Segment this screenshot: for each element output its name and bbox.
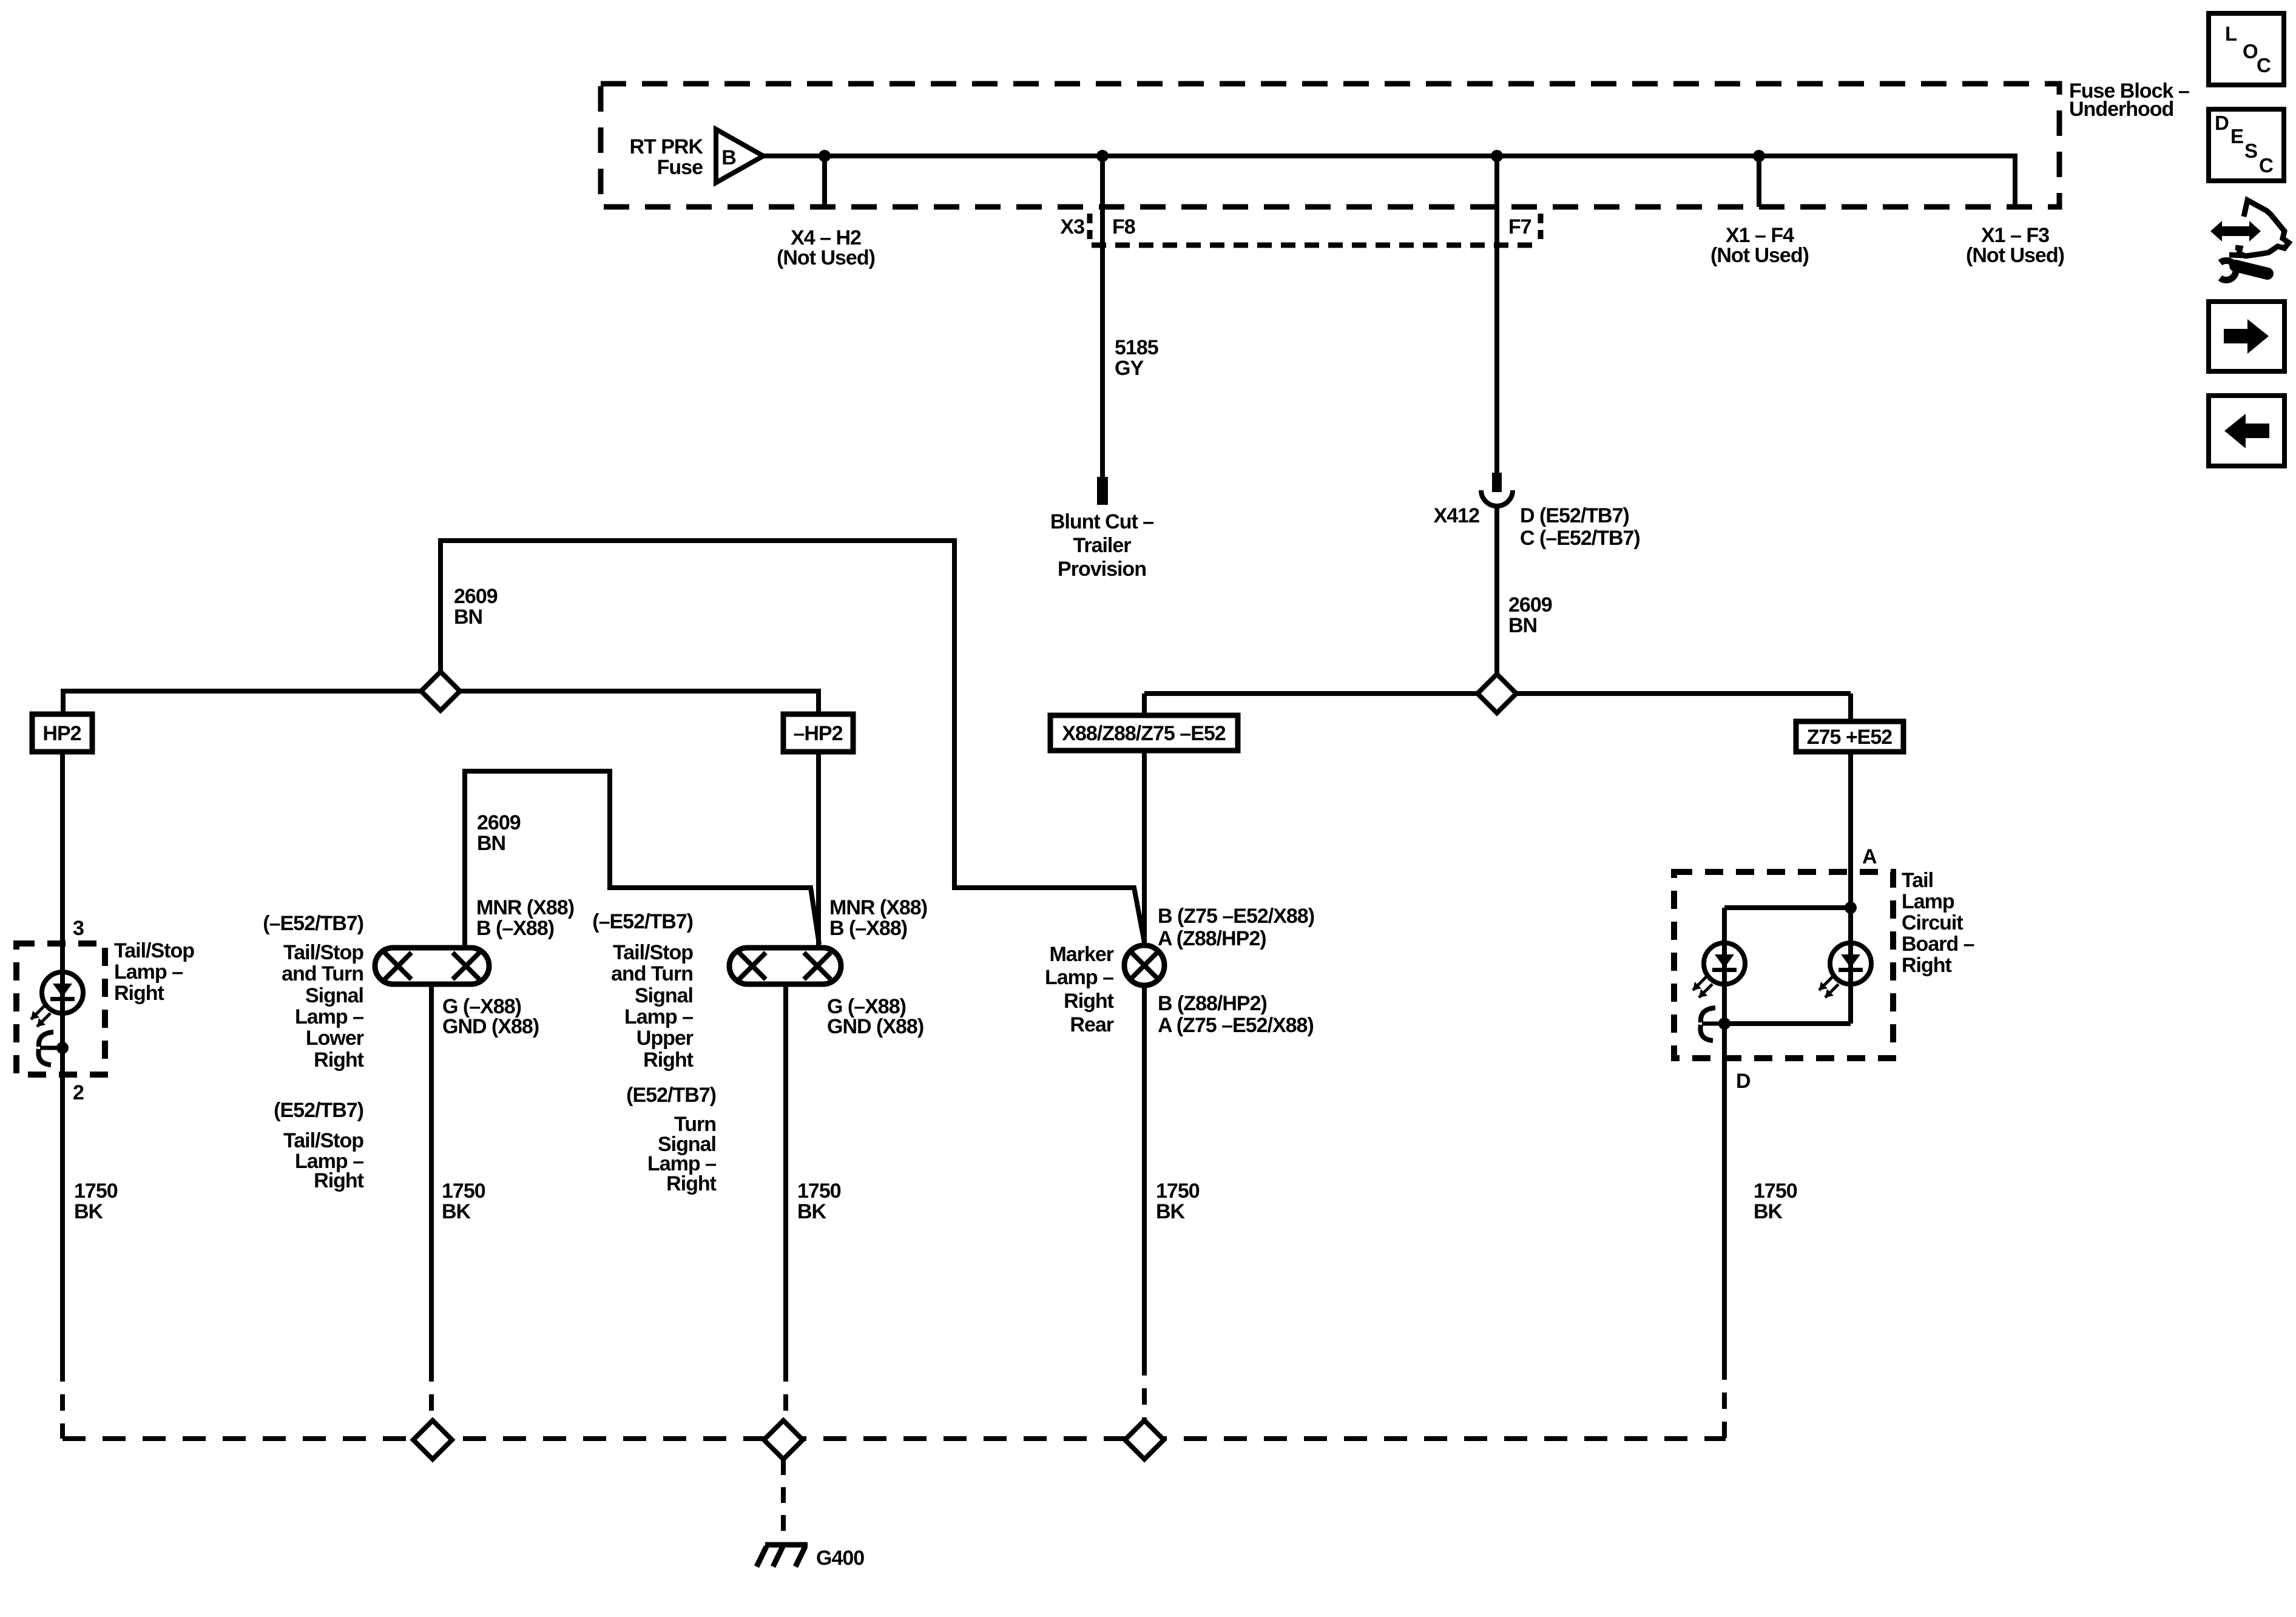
svg-text:GND (X88): GND (X88): [442, 1015, 539, 1038]
splice diamond right: [1477, 674, 1516, 713]
svg-text:RT PRK: RT PRK: [629, 135, 703, 158]
wire HP2 dashed to ground bus: [60, 1365, 65, 1439]
svg-text:Provision: Provision: [1058, 558, 1146, 581]
svg-text:1750: 1750: [797, 1180, 841, 1203]
wire X88 box down to marker lamp: [1142, 751, 1147, 945]
icon box DESC: [2209, 109, 2284, 181]
wire -HP2 down to upper oval: [816, 752, 821, 948]
svg-text:X412: X412: [1434, 504, 1479, 527]
svg-text:Tail/Stop: Tail/Stop: [613, 941, 693, 964]
svg-text:(Not Used): (Not Used): [1710, 244, 1809, 267]
junction dot board top: [1845, 902, 1857, 914]
svg-text:Rear: Rear: [1070, 1013, 1113, 1036]
wire marker lamp to ground: [1142, 985, 1147, 1359]
icon box LOC: [2209, 13, 2284, 85]
svg-text:L: L: [2225, 22, 2237, 45]
svg-text:2609: 2609: [477, 811, 521, 834]
connector box X88/Z88/Z75 -E52: [1050, 715, 1238, 751]
wire left parallel branch HP2 to -HP2: [63, 691, 819, 715]
svg-text:Right: Right: [643, 1048, 694, 1072]
icon car with double arrow and wrench: [2210, 221, 2261, 241]
wire GND upper oval dashed: [783, 1365, 788, 1439]
junction dot F7: [1491, 150, 1503, 162]
svg-text:and Turn: and Turn: [282, 962, 363, 985]
svg-text:S: S: [2244, 140, 2257, 162]
wire GND lower oval dashed: [429, 1365, 434, 1439]
svg-text:BK: BK: [442, 1200, 471, 1223]
wire drop into X88/Z88/Z75 box: [1142, 694, 1147, 715]
wire 2609 BN below X412: [1494, 507, 1499, 694]
wire riser from left diamond to marker lamp node: [441, 541, 1144, 942]
svg-text:(Not Used): (Not Used): [777, 246, 875, 269]
svg-text:Signal: Signal: [635, 984, 693, 1007]
svg-text:Lamp –: Lamp –: [114, 960, 183, 984]
svg-text:Marker: Marker: [1049, 943, 1113, 966]
ground bus dashed: [62, 1436, 1726, 1441]
connector box -HP2: [783, 714, 853, 752]
svg-text:B (–X88): B (–X88): [476, 917, 554, 940]
svg-text:1750: 1750: [1754, 1180, 1797, 1203]
svg-text:A (Z88/HP2): A (Z88/HP2): [1158, 927, 1266, 950]
wire board right branch: [1848, 908, 1853, 1024]
svg-text:Blunt Cut –: Blunt Cut –: [1050, 510, 1153, 533]
junction dot left lamp: [56, 1042, 69, 1054]
wire Z75 box down to circuit board: [1848, 752, 1853, 908]
lamp oval tail/stop and turn - upper right: [729, 948, 841, 984]
wire 2609 BN from lower oval to upper oval (Z-path): [465, 771, 819, 948]
svg-text:BN: BN: [1508, 614, 1537, 637]
wire drop X1-F3: [2013, 154, 2017, 207]
svg-text:GY: GY: [1115, 357, 1144, 380]
svg-text:(E52/TB7): (E52/TB7): [626, 1084, 716, 1107]
wire HP2 down to tail/stop lamp: [60, 752, 65, 1365]
connector box HP2: [32, 714, 92, 752]
bus diamond 1: [413, 1420, 452, 1459]
junction dot X1-F4: [1753, 150, 1765, 162]
svg-text:Lamp –: Lamp –: [1045, 966, 1113, 989]
svg-text:Right: Right: [314, 1169, 364, 1192]
svg-text:Right: Right: [1902, 954, 1952, 977]
svg-text:Tail: Tail: [1902, 869, 1933, 892]
svg-text:O: O: [2243, 40, 2258, 62]
svg-text:BK: BK: [797, 1200, 827, 1223]
wire board left branch: [1722, 908, 1727, 1024]
svg-text:A (Z75 –E52/X88): A (Z75 –E52/X88): [1158, 1014, 1314, 1037]
svg-text:D: D: [2215, 112, 2229, 134]
svg-text:BK: BK: [1754, 1200, 1783, 1223]
wire drop X1-F4: [1757, 156, 1761, 207]
svg-text:F8: F8: [1112, 215, 1135, 238]
svg-text:B: B: [721, 146, 736, 169]
wire splice bus right (to X88 box and Z75 box): [1144, 691, 1851, 696]
svg-text:BN: BN: [477, 832, 505, 855]
svg-text:B (Z75 –E52/X88): B (Z75 –E52/X88): [1158, 905, 1314, 928]
svg-text:Tail/Stop: Tail/Stop: [283, 1129, 363, 1152]
svg-text:–HP2: –HP2: [793, 722, 842, 745]
junction dot X4-H2: [819, 150, 831, 162]
blunt cut terminal: [1097, 477, 1108, 505]
fuse block - underhood dashed boundary: [601, 84, 2059, 207]
LED board right: [1830, 943, 1871, 984]
wire GND lower oval: [429, 984, 434, 1365]
fuse row sub-box dashed: [1092, 243, 1532, 248]
wire circuit board top rail: [1724, 905, 1851, 910]
svg-text:Circuit: Circuit: [1902, 911, 1963, 934]
svg-text:Signal: Signal: [305, 984, 363, 1007]
junction dot board bottom: [1718, 1018, 1730, 1030]
svg-text:B (Z88/HP2): B (Z88/HP2): [1158, 992, 1267, 1015]
svg-text:(–E52/TB7): (–E52/TB7): [263, 912, 363, 935]
LED tail/stop lamp right: [42, 972, 83, 1013]
wire main feed bus from fuse: [763, 154, 2015, 158]
svg-text:2609: 2609: [1508, 593, 1552, 616]
hook splice left lamp: [39, 1032, 53, 1047]
svg-text:1750: 1750: [74, 1180, 118, 1203]
svg-text:BK: BK: [74, 1200, 104, 1223]
wire board down to ground: [1722, 1024, 1727, 1363]
svg-text:(E52/TB7): (E52/TB7): [274, 1099, 363, 1122]
marker lamp symbol: [1124, 945, 1164, 985]
svg-text:Fuse: Fuse: [657, 156, 703, 179]
svg-text:Right: Right: [1064, 990, 1114, 1013]
lamp oval tail/stop and turn - lower right: [375, 948, 489, 984]
svg-text:Right: Right: [666, 1172, 717, 1195]
svg-text:HP2: HP2: [42, 722, 81, 745]
svg-text:Tail/Stop: Tail/Stop: [283, 941, 363, 964]
wire drop X4-H2: [822, 156, 827, 207]
svg-text:Lower: Lower: [306, 1027, 364, 1050]
svg-text:F7: F7: [1508, 215, 1531, 238]
wire drop F7: [1494, 156, 1499, 473]
LED board left: [1704, 943, 1745, 984]
svg-text:BN: BN: [454, 606, 482, 629]
svg-text:E: E: [2230, 125, 2243, 147]
wire marker lamp dashed to bus: [1142, 1359, 1147, 1420]
svg-text:Upper: Upper: [636, 1027, 694, 1050]
wire board dashed to bus: [1722, 1363, 1727, 1439]
connector box Z75 +E52: [1796, 721, 1903, 752]
tail/stop lamp right dashed box: [16, 944, 105, 1075]
svg-text:GND (X88): GND (X88): [827, 1015, 923, 1038]
svg-text:Underhood: Underhood: [2069, 98, 2173, 121]
hook splice board: [1701, 1008, 1715, 1022]
connector X412 symbol: [1492, 473, 1502, 492]
icon box arrow right: [2209, 302, 2284, 371]
svg-text:G400: G400: [816, 1547, 864, 1570]
fuse symbol RT PRK (triangle B): [716, 129, 763, 183]
svg-text:X3: X3: [1060, 215, 1084, 238]
svg-text:Lamp –: Lamp –: [624, 1005, 693, 1028]
svg-text:2: 2: [73, 1081, 84, 1104]
svg-text:X88/Z88/Z75 –E52: X88/Z88/Z75 –E52: [1062, 722, 1226, 745]
svg-text:Board –: Board –: [1902, 933, 1974, 956]
svg-text:1750: 1750: [1156, 1180, 1200, 1203]
svg-text:Trailer: Trailer: [1073, 534, 1131, 557]
bus diamond 2: [764, 1420, 803, 1459]
svg-text:Right: Right: [114, 982, 164, 1005]
svg-text:Lamp –: Lamp –: [295, 1005, 363, 1028]
svg-text:A: A: [1862, 845, 1877, 868]
wire dashed drop to G400: [781, 1459, 786, 1542]
svg-text:D: D: [1736, 1070, 1751, 1093]
svg-text:and Turn: and Turn: [611, 962, 693, 985]
icon box arrow left: [2209, 396, 2284, 466]
svg-text:MNR (X88): MNR (X88): [476, 896, 574, 919]
wire drop into Z75+E52 box: [1848, 694, 1853, 721]
splice diamond left: [421, 672, 460, 711]
bus diamond 3: [1125, 1420, 1164, 1459]
tail lamp circuit board dashed box: [1674, 872, 1893, 1058]
svg-text:Tail/Stop: Tail/Stop: [114, 939, 194, 962]
svg-text:MNR (X88): MNR (X88): [829, 896, 927, 919]
svg-text:BK: BK: [1156, 1200, 1186, 1223]
svg-text:C: C: [2257, 54, 2271, 76]
svg-text:(–E52/TB7): (–E52/TB7): [592, 910, 693, 933]
wire board bottom rail: [1724, 1021, 1851, 1026]
svg-text:Right: Right: [314, 1048, 364, 1072]
svg-text:1750: 1750: [442, 1180, 485, 1203]
svg-text:(Not Used): (Not Used): [1966, 244, 2064, 267]
svg-text:5185: 5185: [1115, 336, 1158, 359]
svg-text:Z75 +E52: Z75 +E52: [1807, 726, 1892, 749]
svg-text:B (–X88): B (–X88): [829, 917, 907, 940]
wire GND upper oval: [783, 984, 788, 1365]
svg-text:C (–E52/TB7): C (–E52/TB7): [1520, 527, 1640, 550]
svg-text:D (E52/TB7): D (E52/TB7): [1520, 504, 1629, 527]
svg-text:C: C: [2259, 154, 2273, 177]
svg-text:3: 3: [73, 917, 84, 940]
wire drop F8 to blunt cut: [1100, 156, 1105, 477]
svg-text:2609: 2609: [454, 585, 498, 608]
ground G400 symbol: [765, 1542, 808, 1548]
junction dot F8: [1096, 150, 1109, 162]
svg-text:Lamp: Lamp: [1902, 890, 1954, 913]
